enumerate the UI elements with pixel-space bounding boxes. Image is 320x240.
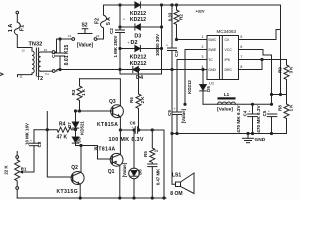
svg-text:470 MK 6.3V: 470 MK 6.3V	[236, 104, 241, 132]
transformer core	[35, 48, 37, 76]
svg-text:D3: D3	[134, 34, 141, 40]
capacitor C4	[252, 104, 254, 114]
svg-text:[Value]: [Value]	[122, 162, 127, 177]
svg-text:[Value]: [Value]	[181, 108, 186, 123]
svg-text:+32V: +32V	[196, 10, 205, 14]
svg-text:[Value]: [Value]	[77, 43, 94, 49]
svg-text:8: 8	[240, 65, 242, 69]
svg-text:R5: R5	[143, 151, 148, 157]
bottom rail	[17, 197, 166, 199]
svg-text:C4: C4	[242, 110, 247, 116]
LED D6	[133, 130, 135, 168]
svg-text:C1: C1	[51, 52, 56, 58]
svg-text:R2: R2	[179, 14, 184, 20]
transformer T2 primary	[32, 51, 34, 73]
wire C8 top line	[34, 129, 57, 131]
switch S2	[72, 38, 75, 41]
svg-text:10000 30V: 10000 30V	[155, 33, 160, 56]
svg-text:3 K: 3 K	[289, 66, 294, 74]
svg-text:VCC: VCC	[225, 48, 233, 52]
svg-text:C8: C8	[37, 141, 42, 147]
top +32V rail	[104, 4, 135, 6]
transistor Q3 KT815A	[111, 105, 124, 118]
svg-text:7: 7	[240, 55, 242, 59]
resistor R6 2K	[136, 70, 141, 131]
svg-text:5: 5	[240, 35, 242, 39]
svg-text:C5: C5	[262, 110, 267, 116]
svg-text:47 K: 47 K	[57, 134, 68, 140]
svg-text:S2: S2	[81, 23, 87, 29]
transistor Q2 KT315G	[71, 172, 84, 185]
svg-text:2 K: 2 K	[140, 96, 145, 104]
svg-text:R9: R9	[278, 67, 283, 73]
speaker LS1	[172, 134, 176, 185]
svg-text:470 MK 6.3V: 470 MK 6.3V	[256, 104, 261, 132]
fuse F2	[101, 15, 107, 28]
capacitor C3 10000uF	[171, 5, 173, 48]
node line emitter y130 with capacitor C6	[120, 129, 135, 131]
AC2 / ground rail to pin 4	[57, 69, 207, 71]
wire pin1	[177, 39, 208, 41]
wire secondary top pin	[41, 51, 52, 53]
svg-text:+: +	[249, 110, 251, 114]
resistor R4 47K	[57, 127, 74, 132]
svg-text:[Value]: [Value]	[217, 107, 233, 113]
bridge minus vertical	[161, 5, 163, 74]
svg-text:F1: F1	[46, 72, 50, 76]
svg-text:C9: C9	[167, 110, 172, 116]
svg-text:100 MK 6.3V: 100 MK 6.3V	[109, 137, 144, 143]
svg-text:R4: R4	[59, 122, 66, 128]
wire C6 line to bottom rail	[163, 130, 165, 198]
diode D7 KD521	[75, 111, 77, 122]
svg-text:Q1: Q1	[108, 169, 115, 175]
svg-text:D7: D7	[67, 122, 72, 128]
wire to AC2 rail	[55, 70, 57, 72]
mains input terminal	[16, 11, 19, 14]
svg-text:GND: GND	[208, 68, 216, 72]
switch node rail to L1	[203, 103, 272, 105]
svg-text:D2: D2	[131, 40, 138, 46]
svg-text:+: +	[149, 160, 151, 164]
wire torn edge	[0, 73, 3, 76]
capacitor C1	[59, 39, 61, 53]
svg-text:+: +	[268, 110, 270, 114]
node dots on top rail	[119, 4, 121, 6]
svg-text:+: +	[174, 107, 176, 111]
wire pin8	[248, 60, 263, 70]
resistor R9 3K	[284, 60, 289, 95]
transformer T2 secondary	[38, 52, 40, 71]
IC U1 MC34063	[207, 36, 239, 80]
svg-text:5 A: 5 A	[106, 17, 112, 25]
svg-text:31: 31	[20, 75, 24, 79]
svg-text:22 K: 22 K	[4, 165, 9, 175]
capacitor C9	[173, 111, 182, 113]
svg-text:3: 3	[202, 55, 204, 59]
wire	[17, 35, 32, 51]
capacitor C8	[33, 130, 35, 144]
svg-text:1 MK 250V: 1 MK 250V	[113, 35, 118, 57]
diode D2 KD212	[120, 48, 162, 50]
svg-text:D6: D6	[137, 169, 142, 175]
feedback node line	[272, 94, 287, 96]
svg-text:0.33: 0.33	[167, 12, 172, 21]
svg-text:KD212: KD212	[130, 61, 147, 67]
svg-text:L1: L1	[224, 92, 230, 97]
svg-text:LS1: LS1	[172, 172, 181, 178]
svg-text:+: +	[128, 41, 130, 45]
svg-text:D5: D5	[206, 86, 211, 92]
svg-text:KD521: KD521	[80, 121, 85, 135]
svg-text:13: 13	[22, 49, 26, 53]
svg-text:+: +	[123, 18, 125, 22]
AC vertical with capacitor C2	[119, 5, 121, 30]
svg-text:0.01 K15: 0.01 K15	[64, 45, 70, 66]
svg-text:1 A: 1 A	[8, 24, 14, 33]
potentiometer R1 22K	[16, 156, 19, 159]
wire secondary bottom pin	[41, 70, 53, 72]
svg-text:C3: C3	[174, 51, 179, 57]
svg-text:IPK: IPK	[225, 58, 231, 62]
wire	[103, 5, 105, 15]
svg-text:4: 4	[202, 65, 204, 69]
svg-text:D8: D8	[77, 137, 82, 143]
svg-text:CII: CII	[225, 38, 230, 42]
svg-text:F2: F2	[44, 48, 48, 52]
svg-text:C1: C1	[68, 34, 72, 38]
svg-text:DRC: DRC	[225, 68, 233, 72]
svg-text:KD212: KD212	[130, 17, 146, 23]
svg-text:R1: R1	[21, 167, 27, 172]
transistor Q1 KT814A	[98, 146, 113, 160]
pin circle	[52, 51, 55, 54]
svg-text:1 K: 1 K	[81, 88, 86, 96]
svg-text:TN32: TN32	[29, 42, 43, 48]
svg-text:1 K: 1 K	[289, 104, 294, 112]
svg-text:+: +	[132, 125, 134, 129]
svg-text:R3: R3	[71, 89, 76, 95]
diode D3 KD212	[120, 26, 162, 28]
svg-text:Q2: Q2	[71, 165, 78, 171]
ground rail	[172, 133, 287, 135]
svg-text:KT814A: KT814A	[94, 146, 115, 152]
wire pin5 feedback	[248, 30, 281, 40]
resistor R3 1K	[77, 79, 82, 111]
svg-text:R8: R8	[278, 105, 283, 111]
resistor R2 0.33	[174, 5, 179, 40]
svg-text:0.47 MK: 0.47 MK	[155, 168, 160, 185]
AC2 lower link	[120, 73, 162, 75]
svg-text:MC34063: MC34063	[217, 29, 237, 34]
diode D4 KD212	[133, 67, 138, 73]
svg-text:F2: F2	[94, 18, 100, 24]
wire to fuse F2	[97, 28, 104, 39]
node base line Q3	[76, 110, 113, 112]
svg-text:SWC: SWC	[208, 38, 217, 42]
svg-text:SWE: SWE	[208, 48, 217, 52]
svg-text:1: 1	[202, 35, 204, 39]
wire	[16, 14, 18, 22]
wire primary bottom	[18, 73, 33, 77]
svg-text:C2: C2	[109, 28, 114, 34]
diode D5 KD212	[202, 70, 204, 105]
pin stubs left	[199, 49, 208, 51]
resistor R8 1K	[284, 95, 289, 134]
diode D8 KD521	[75, 130, 77, 138]
pin circle	[52, 70, 55, 73]
wire pin2 to switch node	[185, 50, 199, 105]
svg-text:+: +	[166, 44, 168, 48]
svg-text:D4: D4	[136, 75, 143, 81]
svg-text:KT815A: KT815A	[97, 122, 118, 128]
svg-text:R6: R6	[129, 97, 134, 103]
svg-text:GND: GND	[255, 137, 266, 143]
wire collector feed	[80, 79, 121, 106]
capacitor C5	[267, 113, 277, 115]
svg-text:C3: C3	[96, 34, 100, 38]
capacitor C7 0.47MK	[148, 163, 157, 165]
svg-text:8 OM: 8 OM	[170, 191, 182, 197]
svg-text:U1: U1	[209, 81, 215, 86]
svg-text:Q3: Q3	[109, 99, 116, 105]
node line Q2 collector y150	[76, 145, 98, 147]
wire	[55, 39, 72, 52]
wire Q2 base feed	[47, 130, 72, 177]
svg-text:10 MK 16V: 10 MK 16V	[25, 123, 30, 145]
ground symbol	[247, 134, 249, 139]
diode D1 KD212	[135, 2, 140, 8]
svg-text:2: 2	[202, 45, 204, 49]
svg-text:KD212: KD212	[187, 80, 192, 94]
svg-text:KD212: KD212	[130, 55, 147, 61]
wire right edge vertical	[280, 5, 282, 95]
svg-text:F1: F1	[20, 25, 26, 32]
svg-text:6: 6	[240, 45, 242, 49]
svg-text:KT315G: KT315G	[57, 189, 79, 195]
pin stubs right	[240, 39, 248, 41]
svg-text:TC: TC	[208, 58, 213, 62]
svg-text:T2: T2	[37, 76, 43, 82]
wire pin6	[248, 50, 272, 105]
svg-text:+: +	[30, 139, 32, 143]
wire pin7 to R9	[248, 59, 287, 61]
wire pin3 to C9	[177, 60, 199, 113]
resistor R5	[150, 130, 155, 164]
fuse F1	[14, 22, 20, 35]
inductor L1	[218, 97, 236, 99]
